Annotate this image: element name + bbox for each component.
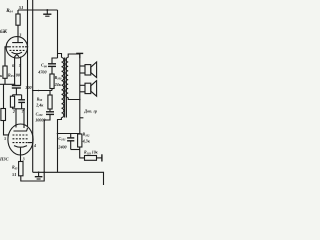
node g3 junction bbox=[32, 142, 34, 144]
wire primary bottom down bbox=[58, 118, 62, 173]
svg-text:C101: C101 bbox=[58, 136, 66, 142]
ground chassis top bbox=[46, 10, 48, 14]
resistor R100 bbox=[50, 74, 54, 89]
svg-text:6: 6 bbox=[12, 64, 14, 68]
capacitor Ck2 bbox=[18, 99, 25, 101]
ground chassis bottom bbox=[38, 171, 40, 173]
svg-text:51: 51 bbox=[19, 5, 24, 10]
resistor R64 bbox=[16, 14, 20, 25]
tube V1 grid g2 bbox=[10, 49, 25, 51]
wire R103 right lead bbox=[97, 157, 102, 159]
svg-text:1: 1 bbox=[6, 43, 8, 47]
wire down to R103 bbox=[80, 150, 85, 158]
wire B+ to transformer primary bbox=[58, 54, 62, 58]
terminal jack top bbox=[76, 52, 83, 54]
wire R64 top lead bbox=[17, 10, 19, 14]
loudspeaker Gr1 bbox=[80, 65, 85, 67]
node junction on bus B bbox=[32, 90, 34, 92]
node grid tick junction bbox=[27, 46, 29, 48]
wire node row lower bbox=[13, 108, 26, 110]
svg-text:6Ж: 6Ж bbox=[0, 30, 8, 35]
wire R99 to C100 bbox=[49, 109, 51, 112]
svg-text:Доп. гр: Доп. гр bbox=[83, 109, 97, 114]
svg-text:R95100: R95100 bbox=[8, 72, 21, 78]
svg-text:3: 3 bbox=[22, 157, 25, 161]
svg-text:300: 300 bbox=[24, 85, 31, 90]
wire cluster bottom row bbox=[71, 149, 80, 151]
wire R100 bottom lead bbox=[51, 89, 53, 91]
wire branch to C99 bbox=[52, 58, 58, 64]
node junction bbox=[14, 84, 16, 86]
wire node row bbox=[13, 94, 22, 96]
wire right corner down bbox=[57, 10, 59, 58]
tube V2 anode bbox=[14, 128, 28, 131]
node junction bbox=[38, 90, 40, 92]
svg-text:R100: R100 bbox=[55, 76, 62, 81]
wire node row left bbox=[0, 83, 15, 85]
svg-text:24к: 24к bbox=[54, 82, 62, 87]
svg-text:3: 3 bbox=[18, 33, 21, 37]
wire Ck bottom lead bbox=[15, 88, 17, 95]
wire vertical bus B bbox=[32, 0, 34, 172]
resistor R99 bbox=[49, 91, 51, 96]
wire R96 to grid pin5 bbox=[4, 121, 10, 135]
wire grid lead left bbox=[5, 47, 9, 66]
node junction bbox=[79, 133, 81, 135]
tube V1 cathode bbox=[12, 52, 23, 54]
svg-text:R64: R64 bbox=[6, 9, 13, 14]
tube V1 heater bbox=[15, 54, 19, 56]
wire stub terminal bbox=[80, 117, 84, 119]
wire anode lead tube V1 bbox=[17, 25, 19, 37]
node junction bbox=[57, 133, 59, 135]
wire vertical bus A bbox=[27, 0, 29, 127]
resistor R95 bbox=[3, 66, 7, 78]
tube V2 grid g2 bbox=[13, 138, 29, 140]
svg-text:4: 4 bbox=[33, 144, 36, 148]
transformer core bbox=[65, 58, 67, 118]
capacitor C100 bbox=[46, 111, 54, 113]
wire heater lead pin7 bbox=[20, 57, 22, 86]
wire heater lead pin6 bbox=[14, 57, 16, 85]
wire g3 tick to bus B bbox=[28, 142, 33, 144]
tube V2 cathode bbox=[14, 146, 27, 148]
wire bottom ground rail bbox=[33, 172, 104, 185]
wire node row mid bbox=[33, 90, 52, 92]
svg-text:4700: 4700 bbox=[37, 69, 46, 74]
wire heater lead to tube V2 pin2 bbox=[15, 109, 17, 128]
tube V1 anode bbox=[12, 37, 23, 43]
transformer Tr primary winding bbox=[62, 57, 64, 117]
wire bottom left rail bbox=[21, 172, 44, 181]
capacitor C99 bbox=[48, 63, 56, 65]
capacitor C101 bbox=[70, 134, 72, 138]
wire R95 bottom lead bbox=[4, 78, 6, 84]
wire C100 down to ground rail bbox=[44, 114, 50, 172]
terminal jack right bbox=[101, 154, 103, 161]
tube V1 grid g1 bbox=[9, 46, 25, 48]
resistor R96 grid leak bbox=[1, 109, 6, 121]
svg-text:C99: C99 bbox=[41, 63, 47, 69]
wire C99 to R100 bbox=[51, 66, 53, 74]
tube V2 grid g1 bbox=[13, 134, 29, 136]
wire grid tick to bus A bbox=[25, 46, 28, 48]
svg-text:51: 51 bbox=[12, 172, 16, 177]
svg-text:П3С: П3С bbox=[0, 157, 9, 162]
wire bottom cluster row bbox=[58, 133, 80, 135]
wire R96 top lead bbox=[3, 84, 5, 108]
svg-text:2: 2 bbox=[12, 110, 15, 114]
tube V1 envelope bbox=[6, 37, 27, 58]
node junction bbox=[79, 99, 81, 101]
resistor R65 bbox=[19, 162, 23, 176]
svg-text:4,3к: 4,3к bbox=[82, 139, 91, 144]
svg-text:2400: 2400 bbox=[57, 145, 66, 150]
resistor R102 bbox=[78, 134, 82, 147]
svg-text:2,4к: 2,4к bbox=[35, 103, 44, 108]
capacitor Ck electrolytic bbox=[12, 85, 21, 87]
transformer Tr secondary winding bbox=[66, 58, 68, 98]
tube V2 grid g3 bbox=[13, 142, 29, 144]
wire top B+ rail bbox=[18, 9, 58, 11]
wire speaker bus bbox=[79, 54, 81, 134]
loudspeaker Gr2 bbox=[80, 84, 85, 86]
wire cathode lead down bbox=[20, 148, 22, 162]
node junction on top rail bbox=[46, 9, 48, 11]
svg-text:R103 10к: R103 10к bbox=[84, 151, 99, 156]
wire R102 bottom lead bbox=[79, 147, 81, 150]
wire secondary top to terminal bbox=[68, 54, 80, 58]
resistor Rk bbox=[10, 96, 14, 107]
node junction bbox=[43, 171, 45, 173]
wire heater lead to tube V2 pin7 bbox=[23, 109, 25, 128]
wire secondary bottom bbox=[68, 98, 80, 100]
svg-text:5: 5 bbox=[4, 137, 6, 141]
resistor R103 bbox=[85, 156, 97, 161]
tube V2 envelope bbox=[8, 124, 33, 155]
